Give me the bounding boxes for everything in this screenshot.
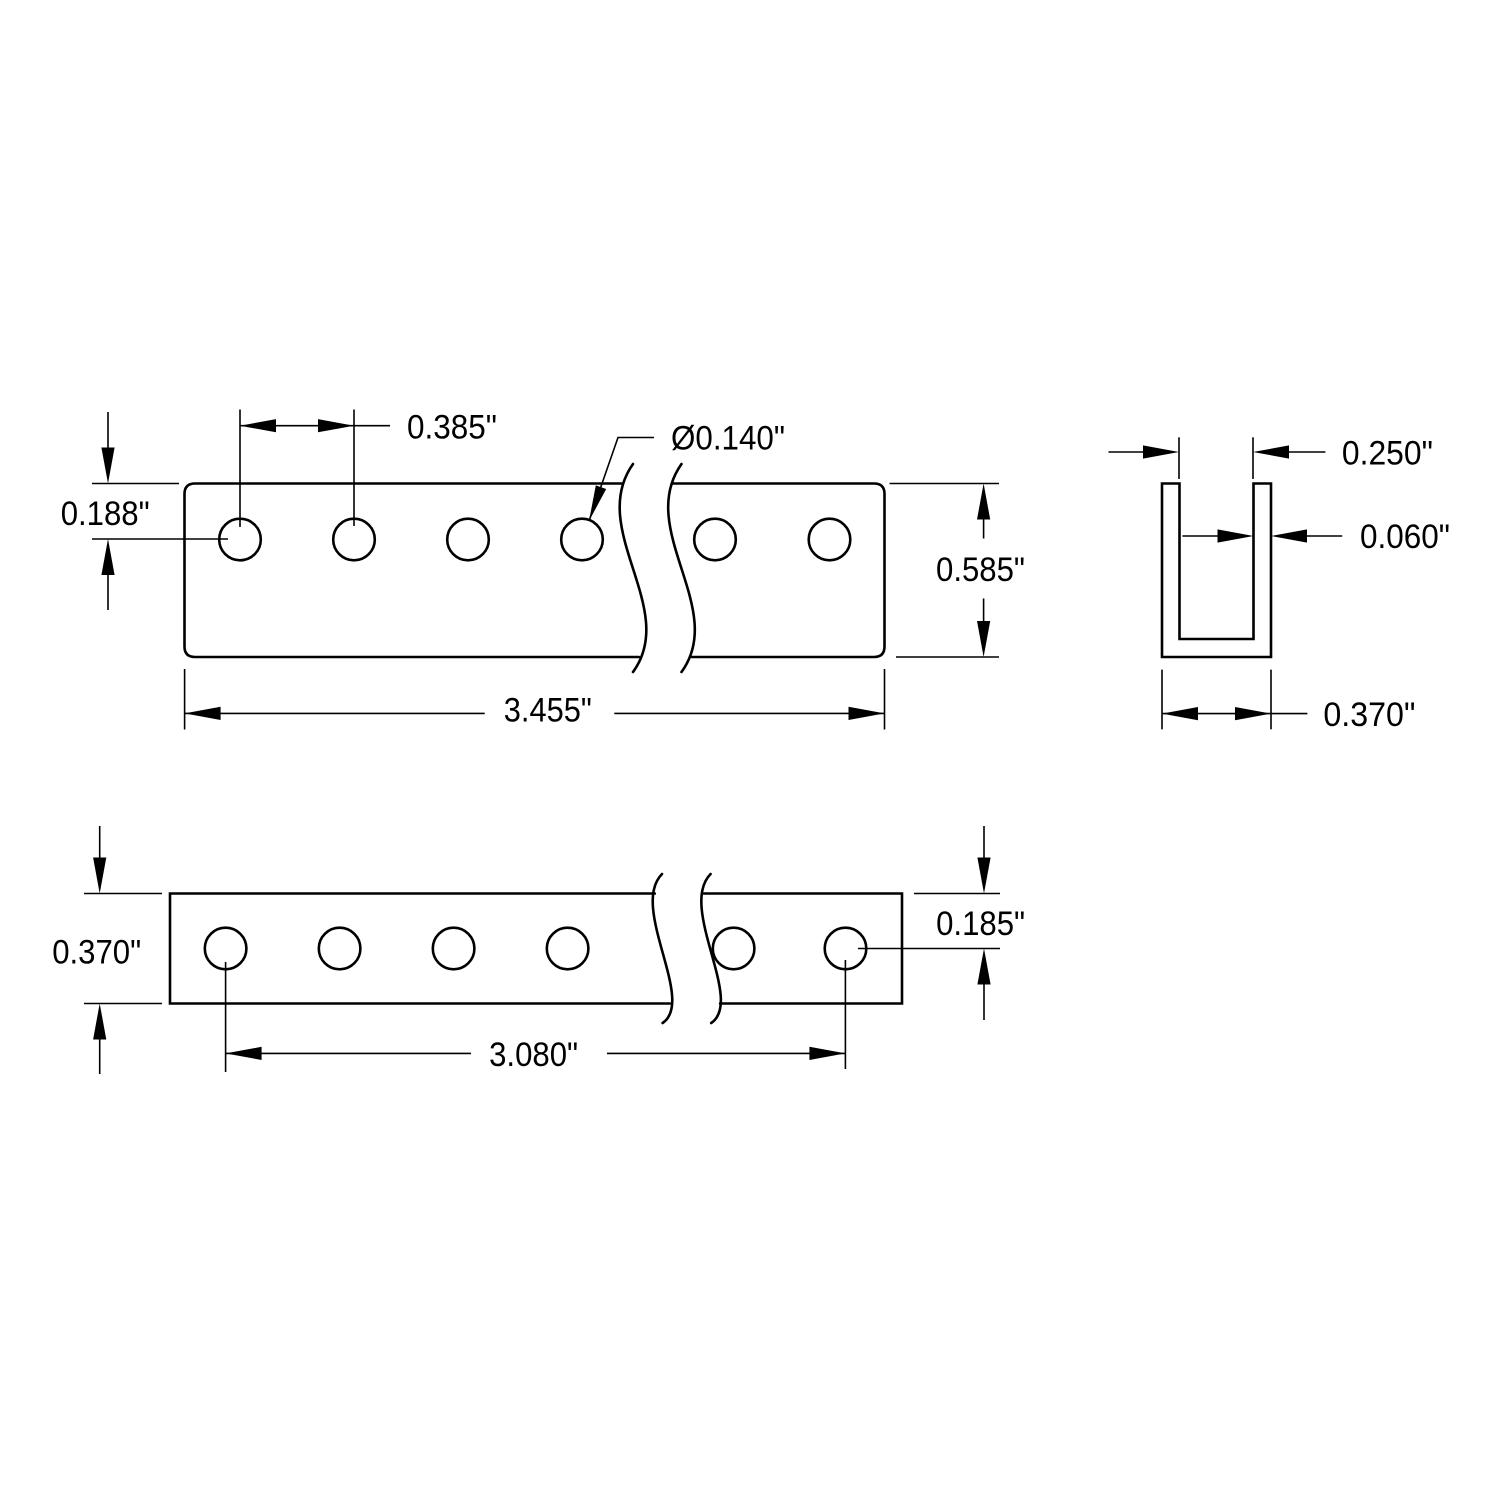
dimension 3.080": [226, 960, 846, 1072]
dimension 0.185": [858, 826, 1000, 1020]
hole H3: [447, 519, 489, 561]
hole H6: [809, 519, 851, 561]
dimension 0.385": [240, 410, 390, 528]
dimension 0.188": [92, 412, 228, 610]
dimension 3.455": [185, 669, 885, 730]
svg-text:0.060": 0.060": [1360, 518, 1450, 556]
hole B3: [433, 928, 475, 970]
break line left (bottom view): [653, 874, 673, 1023]
plan view outline left piece: [170, 894, 670, 1004]
section outline: [1162, 484, 1271, 658]
svg-text:0.250": 0.250": [1342, 435, 1433, 473]
break line left (top view): [620, 464, 647, 672]
dimension 0.250": [1109, 437, 1326, 479]
hole B1: [205, 928, 247, 970]
svg-text:0.188": 0.188": [61, 495, 150, 533]
svg-text:0.185": 0.185": [936, 905, 1025, 943]
side view outline right piece: [673, 484, 885, 658]
hole H4: [561, 519, 603, 561]
svg-text:0.370": 0.370": [52, 934, 141, 972]
leader and label diameter 0.140": [589, 438, 654, 522]
svg-text:0.585": 0.585": [936, 551, 1025, 589]
dimension 0.370" (section width): [1162, 670, 1307, 730]
dimension 0.585": [890, 484, 1000, 658]
hole H2: [333, 519, 375, 561]
svg-text:0.385": 0.385": [407, 408, 497, 446]
svg-text:0.370": 0.370": [1323, 696, 1415, 734]
hole B6: [825, 928, 867, 970]
side view outline left piece: [185, 484, 640, 658]
hole B5: [713, 928, 755, 970]
hole H5: [694, 519, 736, 561]
dimension 0.060": [1182, 535, 1342, 537]
svg-text:3.455": 3.455": [504, 692, 592, 730]
hole B2: [319, 928, 361, 970]
hole H1: [219, 519, 261, 561]
hole B4: [547, 928, 589, 970]
svg-text:3.080": 3.080": [489, 1036, 578, 1074]
svg-text:Ø0.140": Ø0.140": [671, 419, 785, 457]
break line right (top view): [668, 464, 695, 672]
break line right (bottom view): [701, 874, 721, 1023]
dimension 0.370" (plan view width): [84, 826, 162, 1074]
plan view outline right piece: [704, 894, 902, 1004]
